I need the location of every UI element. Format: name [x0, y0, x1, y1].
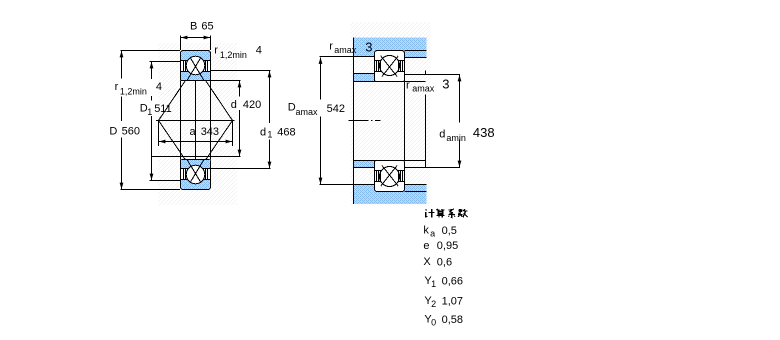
right figure hatched backdrop [351, 22, 431, 205]
svg-text:1,2min: 1,2min [220, 50, 247, 60]
ball X line a (bottom section) [187, 160, 201, 183]
inner ring (blue) bottom section [181, 160, 210, 169]
outer ring (blue) top section [181, 51, 210, 60]
wire: gap vertical left edge [180, 81, 182, 160]
svg-text:a: a [190, 126, 197, 138]
dimension d1: arrow up [268, 71, 272, 77]
svg-text:amax: amax [334, 45, 357, 55]
shaft shoulder lower bottom line [354, 167, 375, 169]
table title "calculation coefficients" (CJK glyphs drawn as strokes) [426, 209, 468, 218]
dimension D: bottom extension line [121, 189, 181, 191]
svg-text:e: e [423, 240, 429, 252]
svg-text:amax: amax [296, 107, 319, 117]
inner ring (blue) top section [181, 72, 210, 81]
housing upper block (blue) [353, 38, 427, 58]
glyph suan (算) [436, 209, 444, 218]
svg-text:1: 1 [267, 130, 272, 140]
svg-text:511: 511 [154, 103, 172, 115]
wire: gap vertical center [195, 81, 197, 160]
cage bar left (top section) [183, 61, 185, 71]
dimension D: line (interrupted by labels) [121, 51, 123, 79]
svg-text:420: 420 [243, 99, 261, 111]
glyph ji (计) [426, 209, 435, 217]
svg-text:468: 468 [277, 126, 295, 138]
svg-text:X: X [423, 256, 431, 268]
svg-text:0,95: 0,95 [437, 240, 458, 252]
ball X line b (right bottom) [382, 166, 398, 187]
cage bar left hatched (right bottom) [377, 171, 381, 182]
svg-text:amax: amax [412, 84, 435, 94]
ball X line b (right top) [382, 56, 398, 77]
ball (right fig top) [380, 56, 400, 76]
damin top extension line [405, 74, 461, 76]
svg-text:r: r [406, 80, 410, 92]
bearing side face line between sections [404, 82, 406, 161]
dimension D: top extension line [121, 50, 181, 52]
dimension B: extension line left [180, 36, 182, 51]
ball bottom section [186, 165, 205, 184]
ring side boundary lines bottom section [181, 179, 188, 181]
housing/shaft left edge line [353, 38, 355, 205]
dimension D1: bottom extension line [150, 180, 181, 182]
svg-text:r: r [115, 81, 119, 93]
contact-angle diagonal top-left [159, 58, 201, 121]
dimension a: extension line left [158, 121, 160, 147]
svg-text:560: 560 [122, 126, 140, 138]
ball X line b (top section) [190, 58, 204, 81]
housing upper shoulder bottom line right of bearing [405, 57, 427, 59]
contact-angle diagonal top-right [190, 58, 232, 121]
svg-text:d: d [439, 129, 445, 141]
cage bar right (bottom section) [205, 169, 207, 179]
svg-text:542: 542 [327, 103, 345, 115]
dimension B: arrow right [204, 36, 210, 40]
ball X line a (right top) [381, 56, 397, 77]
ring boundary lines (bottom section) [375, 170, 382, 172]
dimension d: top extension line [211, 80, 241, 82]
ring side boundary lines top section [181, 60, 188, 62]
svg-text:2: 2 [431, 299, 436, 309]
bearing top section body [181, 51, 211, 81]
dimension D1: line (interrupted by labels) [151, 62, 153, 80]
dimension d1: bottom extension line [211, 168, 271, 170]
bearing top section body (right fig) [375, 51, 405, 82]
svg-text:D: D [109, 125, 117, 137]
shaft upper surface line [354, 81, 426, 83]
svg-text:438: 438 [473, 125, 495, 140]
shaft shoulder upper (blue) [354, 74, 375, 82]
svg-text:65: 65 [201, 21, 213, 33]
dimension d: arrow down [238, 150, 242, 156]
svg-text:0: 0 [431, 317, 436, 327]
dimension d1: top extension line [211, 70, 271, 72]
housing upper bore line right of bearing [405, 50, 427, 52]
dimension D1: top extension line [150, 61, 181, 63]
bearing bottom section body [181, 160, 211, 190]
glyph shu (数) [458, 209, 468, 217]
ball (right fig bottom) [380, 167, 400, 187]
ball top section [186, 56, 205, 75]
svg-text:r: r [329, 40, 333, 52]
housing lower block (blue) [353, 185, 427, 205]
damin bottom extension line [405, 167, 461, 169]
dimension d: line (interrupted by label) [239, 81, 241, 97]
svg-text:r: r [214, 44, 218, 56]
dimension a: arrow right [226, 140, 232, 144]
glyph xi (系) [449, 209, 455, 217]
dimension damin: arrow down [458, 161, 462, 167]
dimension d: bottom extension line [152, 156, 241, 158]
bearing bottom section body (right fig) [375, 161, 405, 192]
housing lower bore line right of bearing [405, 191, 427, 193]
ball X line a (top section) [187, 58, 201, 81]
dimension d1: line (interrupted by label) [269, 71, 271, 123]
svg-text:3: 3 [365, 39, 372, 54]
wire: gap vertical right edge [210, 81, 212, 160]
dimension B: extension line right [210, 36, 212, 51]
cage bar left hatched (right top) [377, 61, 381, 72]
dimension D1: arrow down [150, 174, 154, 180]
dimension damin: line (interrupted by label) [459, 75, 461, 123]
svg-text:0,6: 0,6 [437, 257, 452, 269]
ring boundary lines (top section) [375, 60, 381, 62]
svg-text:d: d [260, 126, 266, 138]
svg-text:k: k [423, 225, 429, 237]
dimension d: arrow up [238, 81, 242, 87]
dimension Damax: line (interrupted by label) [320, 58, 322, 100]
svg-text:0,5: 0,5 [442, 225, 457, 237]
dimension d1: arrow down [268, 162, 272, 168]
dimension a: arrow left [159, 140, 165, 144]
wire: left figure center horizontal line [156, 120, 235, 122]
svg-text:1,07: 1,07 [442, 296, 463, 308]
cage bar right (top section) [205, 61, 207, 71]
dimension B: line [181, 37, 211, 39]
shaft lower surface line [354, 160, 426, 162]
svg-text:4: 4 [156, 81, 162, 93]
svg-text:d: d [231, 99, 237, 111]
ball X line a (right bottom) [381, 166, 397, 187]
svg-text:a: a [430, 229, 435, 239]
left figure hatched backdrop [158, 43, 237, 205]
dimension a: line [159, 141, 233, 143]
dimension Damax: arrow down [319, 178, 323, 184]
shaft right break line (interrupted by label) [425, 95, 427, 168]
dimension a: extension line right [232, 121, 234, 147]
shaft shoulder tick right [425, 71, 427, 75]
svg-text:343: 343 [201, 126, 219, 138]
svg-text:4: 4 [256, 44, 262, 56]
housing upper shoulder bottom line + Damax top extension [320, 56, 375, 58]
cage bar right hatched (right top) [399, 61, 403, 72]
cage bar right hatched (right bottom) [399, 171, 403, 182]
housing lower shoulder top line right of bearing [405, 184, 427, 186]
shaft shoulder lower (blue) [354, 160, 375, 168]
svg-text:1: 1 [147, 107, 152, 117]
svg-text:0,58: 0,58 [442, 314, 463, 326]
svg-text:3: 3 [442, 77, 449, 92]
contact-angle diagonal bottom-left [159, 121, 201, 183]
dimension D: arrow up [120, 51, 124, 57]
dimension D1: arrow up [150, 62, 154, 68]
cage bar left (bottom section) [183, 169, 185, 179]
housing lower shoulder top line + Damax bottom extension [320, 184, 375, 186]
svg-text:1: 1 [431, 279, 436, 289]
dimension D: arrow down [120, 183, 124, 189]
dimension Damax: arrow up [319, 58, 323, 64]
axis centerline (dash-dot) [349, 120, 381, 122]
shaft shoulder upper top line [354, 73, 375, 75]
svg-text:amin: amin [446, 133, 466, 143]
dimension damin: arrow up [458, 75, 462, 81]
dimension B: arrow left [181, 36, 187, 40]
contact-angle diagonal bottom-right [190, 121, 232, 183]
svg-text:1,2min: 1,2min [120, 87, 147, 97]
svg-text:0,66: 0,66 [442, 276, 463, 288]
ball X line b (bottom section) [190, 160, 204, 183]
svg-text:B: B [190, 21, 197, 33]
outer ring (blue) bottom section [181, 180, 210, 189]
